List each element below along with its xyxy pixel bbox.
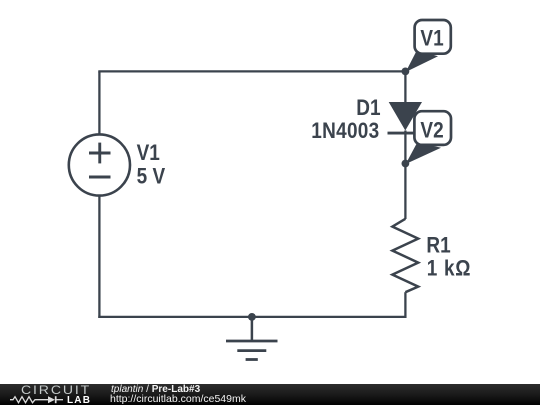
- ground stem: [251, 317, 254, 341]
- ground bar 3: [246, 358, 258, 361]
- node dot V1: [402, 68, 410, 76]
- wire top horizontal: [98, 70, 405, 72]
- footer bar: [0, 384, 540, 405]
- svg-text:V1: V1: [420, 26, 443, 51]
- CircuitLab logo LAB text: [67, 396, 91, 405]
- resistor R1: [392, 219, 418, 292]
- node flag V2 pointer: [406, 142, 441, 164]
- svg-text:R1: R1: [426, 233, 450, 258]
- svg-text:1 kΩ: 1 kΩ: [427, 256, 471, 281]
- voltage source V1: [69, 134, 130, 195]
- node flag V1 box: [415, 20, 451, 54]
- svg-text:1N4003: 1N4003: [311, 119, 379, 144]
- wire left vertical top: [98, 71, 100, 134]
- svg-text:5 V: 5 V: [137, 164, 166, 189]
- node flag V2 box: [414, 111, 451, 145]
- CircuitLab logo CIRCUIT text: [21, 386, 91, 396]
- wire resistor to bottom: [404, 292, 406, 318]
- ground bar 1: [226, 340, 278, 343]
- node flag V1 pointer: [406, 50, 438, 72]
- footer title tplantin / Pre-Lab#3: [111, 384, 200, 394]
- svg-text:V2: V2: [420, 118, 443, 143]
- wire left vertical bottom: [98, 196, 100, 318]
- svg-text:D1: D1: [356, 96, 380, 121]
- footer url: [110, 394, 246, 404]
- svg-text:V1: V1: [137, 141, 160, 166]
- wire diode cathode: [404, 131, 406, 164]
- wire diode anode: [404, 71, 406, 104]
- CircuitLab logo zigzag and diode symbol: [10, 395, 68, 405]
- ground node dot: [248, 313, 256, 321]
- wire node V2 to resistor: [404, 164, 406, 220]
- diode D1 triangle: [389, 102, 422, 131]
- ground bar 2: [237, 349, 266, 352]
- node dot V2: [402, 160, 410, 168]
- wire bottom horizontal: [98, 316, 406, 318]
- diode D1 cathode bar: [388, 132, 422, 135]
